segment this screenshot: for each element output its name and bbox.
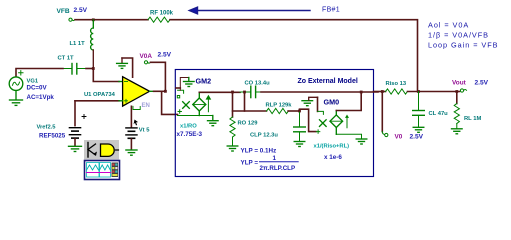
junction RL branch [455, 90, 458, 93]
wire CO to box exit [261, 91, 378, 93]
wire RLP horizontal [233, 110, 267, 112]
svg-text:1/β = V0A/VFB: 1/β = V0A/VFB [428, 31, 489, 40]
wire GM2 input stub [176, 87, 180, 89]
ground at op-amp V+ [117, 58, 128, 68]
junction RLP branch [243, 91, 246, 94]
controlled source GM0 diamond [330, 111, 349, 135]
ground below CLP [294, 142, 305, 147]
battery Vt [126, 128, 137, 150]
wire V0A tap [151, 62, 166, 91]
junction VFB node [92, 18, 95, 21]
resistor RF zigzag [148, 17, 170, 22]
svg-text:CT 1T: CT 1T [58, 56, 75, 62]
capacitor CT [63, 64, 86, 75]
ground at GM2 input [184, 78, 195, 87]
svg-text:U1 OPA734: U1 OPA734 [84, 92, 116, 98]
wire op-amp noninverting input [75, 100, 123, 102]
op-amp positive supply wire to ground [122, 58, 133, 77]
svg-text:Loop Gain = VFB: Loop Gain = VFB [428, 41, 498, 50]
svg-text:L1 1T: L1 1T [70, 41, 86, 47]
icon TINA macro symbol [84, 140, 119, 160]
junction CT node [92, 67, 95, 70]
capacitor CLP [294, 111, 306, 141]
svg-text:Vout: Vout [452, 80, 467, 87]
wire GM0 output to main node [336, 92, 361, 111]
wire GM0 bottom to ground [336, 134, 361, 138]
svg-text:2.5V: 2.5V [410, 133, 424, 140]
node V0A [144, 61, 150, 64]
capacitor CL [413, 92, 425, 127]
wire output node down into box [162, 91, 178, 114]
svg-text:x7.75E-3: x7.75E-3 [177, 131, 203, 138]
resistor Riso [386, 89, 408, 94]
wire RLP to CLP node [288, 110, 299, 112]
wire CLP node to GM0 input [300, 109, 317, 131]
svg-text:EN: EN [142, 103, 150, 109]
junction V0 tap [381, 90, 384, 93]
svg-text:VG1: VG1 [27, 78, 39, 84]
svg-text:CLP 12.3u: CLP 12.3u [250, 132, 278, 138]
formula YLP [241, 155, 299, 172]
svg-text:REF5025: REF5025 [39, 133, 66, 140]
junction CLP node [298, 110, 301, 113]
junction RO branch [231, 91, 234, 94]
svg-text:2π.RLP.CLP: 2π.RLP.CLP [260, 165, 296, 172]
node Vout [460, 89, 466, 92]
arrow FB#1 [189, 7, 310, 14]
wire RO to ground [232, 137, 234, 146]
controlled source GM2 diamond [193, 92, 211, 115]
svg-text:1: 1 [273, 155, 277, 162]
junction CL branch [417, 90, 420, 93]
wire Riso to Vout [408, 91, 460, 93]
svg-text:GM0: GM0 [324, 97, 340, 106]
wire box exit to Riso [374, 91, 386, 93]
ground below GM2 [208, 116, 219, 126]
svg-text:x1/(Riso+RL): x1/(Riso+RL) [314, 144, 350, 150]
wire VFB to RF [75, 19, 148, 21]
svg-text:VFB: VFB [57, 8, 70, 15]
resistor RLP [267, 108, 289, 113]
box Zo External Model [175, 70, 373, 177]
wire V0 tap down [381, 92, 383, 132]
wire VG1 to CT [16, 69, 63, 77]
wire RLP branch vertical [244, 92, 246, 111]
svg-text:AC=1Vpk: AC=1Vpk [27, 94, 55, 101]
svg-text:CO 13.4u: CO 13.4u [245, 80, 271, 86]
ground below Vref [69, 146, 82, 151]
junction GM0 output [360, 91, 363, 94]
wire Vref to input [74, 101, 76, 126]
wire op-amp output [150, 90, 166, 92]
svg-text:V0: V0 [395, 133, 403, 140]
svg-text:V0A: V0A [140, 53, 153, 60]
wire op-amp V- down to battery [130, 106, 132, 127]
ground at GM0 input [302, 97, 318, 105]
node VFB [69, 18, 75, 21]
ground below RO [227, 146, 238, 151]
svg-text:DC=0V: DC=0V [27, 85, 48, 92]
op-amp U1 OPA734 [123, 77, 150, 106]
ground below GM0 [356, 139, 367, 144]
svg-text:RO 129: RO 129 [238, 121, 259, 127]
wire RO branch [232, 92, 234, 117]
resistor RL [454, 92, 459, 129]
svg-text:GM2: GM2 [196, 77, 212, 86]
wire main output node inside box [199, 91, 240, 93]
svg-text:Vt 5: Vt 5 [139, 128, 150, 134]
ground below RL [452, 129, 463, 134]
capacitor CO [240, 86, 261, 97]
junction op-amp output node [164, 90, 167, 93]
wire CT to junction [86, 68, 93, 70]
svg-text:2.5V: 2.5V [475, 80, 489, 87]
svg-text:CL 47u: CL 47u [429, 111, 449, 117]
svg-text:RL 1M: RL 1M [464, 116, 481, 122]
source VG1 [9, 71, 23, 91]
svg-text:2.5V: 2.5V [74, 7, 88, 14]
controlled source GM0 input port [316, 97, 326, 133]
ground below CL [413, 127, 424, 132]
svg-text:Aol = V0A: Aol = V0A [428, 21, 469, 30]
svg-text:x1/RO: x1/RO [180, 124, 197, 130]
node V0 [382, 132, 388, 137]
resistor RO [230, 117, 235, 137]
svg-text:Riso 13: Riso 13 [386, 81, 407, 87]
op-amp EN pin bracket [133, 106, 140, 109]
svg-text:2.5V: 2.5V [158, 52, 172, 59]
svg-text:YLP =: YLP = [241, 160, 259, 167]
svg-text:Zo External Model: Zo External Model [298, 78, 358, 85]
ground below VG1 [10, 91, 23, 106]
ground below Vt [126, 150, 137, 155]
svg-text:x 1e-6: x 1e-6 [324, 154, 342, 161]
svg-text:YLP = 0.1Hz: YLP = 0.1Hz [241, 148, 277, 155]
inductor L1 [91, 20, 94, 69]
svg-text:Vref2.5: Vref2.5 [37, 124, 57, 130]
wire RF to feedback corner [170, 20, 418, 92]
cursor arrow near Vt [134, 120, 139, 126]
controlled source GM2 input port [177, 78, 189, 114]
svg-text:FB#1: FB#1 [322, 7, 340, 14]
icon TINA waveform viewer [85, 161, 120, 180]
svg-text:RF 100k: RF 100k [150, 11, 174, 17]
svg-text:RLP 129k: RLP 129k [266, 103, 293, 109]
wire GM2 bottom return [178, 115, 213, 117]
wire junction to op-amp inverting input [93, 69, 119, 82]
battery Vref2.5 REF5025 [69, 115, 86, 146]
